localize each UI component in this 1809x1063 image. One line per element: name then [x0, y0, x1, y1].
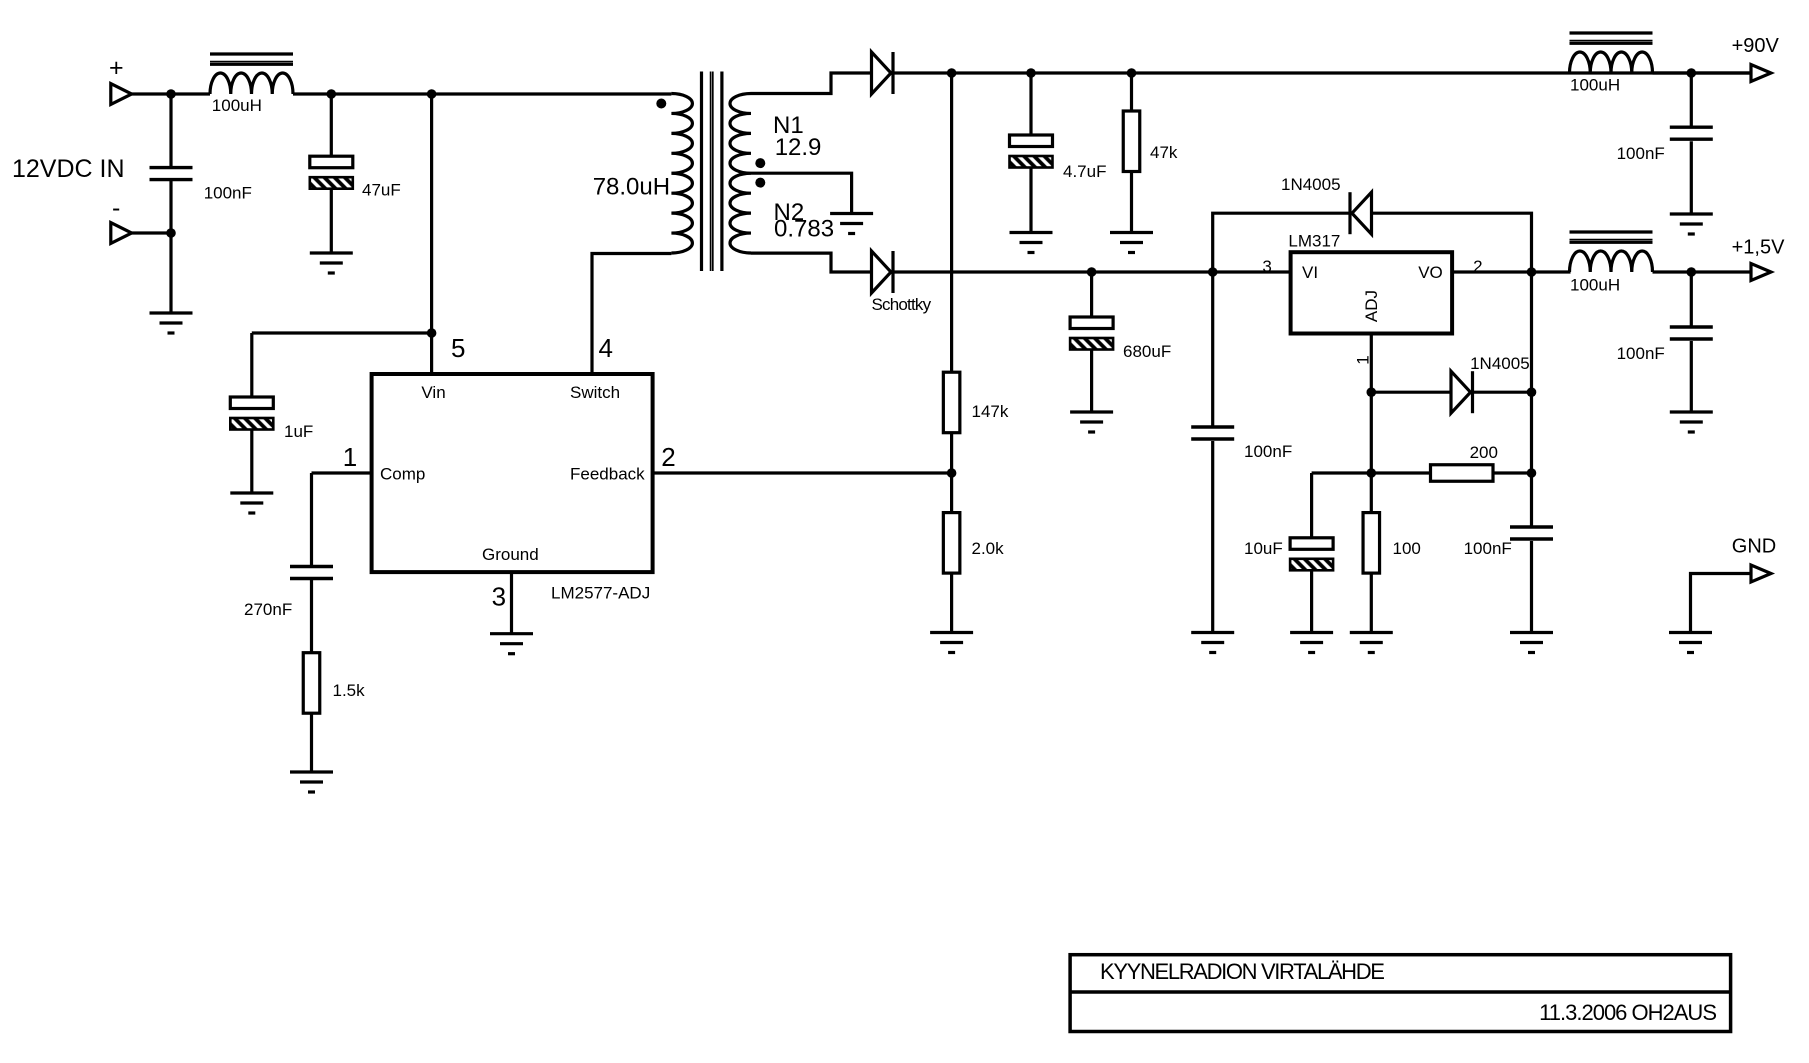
wire 100 to ground: [1370, 573, 1373, 632]
transformer T1 core lines: [702, 72, 722, 272]
capacitor 100nF input: [150, 168, 193, 180]
node R junction +1.5V: [1687, 267, 1697, 277]
wire capacitor to minus node: [169, 181, 172, 233]
wire 47uF to ground: [330, 190, 333, 254]
resistor 100: [1363, 513, 1380, 574]
wire secondary center tap: [751, 173, 852, 213]
svg-text:100nF: 100nF: [1617, 144, 1665, 163]
capacitor 270nF: [290, 567, 333, 579]
svg-text:Switch: Switch: [570, 383, 620, 402]
svg-text:1uF: 1uF: [284, 422, 313, 441]
inductor 100uH +1.5V output: [1570, 232, 1653, 272]
svg-text:78.0uH: 78.0uH: [593, 174, 670, 201]
wire ADJ pin down: [1370, 334, 1373, 513]
svg-text:KYYNELRADION VIRTALÄHDE: KYYNELRADION VIRTALÄHDE: [1100, 959, 1384, 984]
svg-text:ADJ: ADJ: [1362, 290, 1381, 322]
ground 100nF LM317: [1191, 633, 1234, 653]
wire 4.7uF to ground: [1029, 169, 1032, 233]
diode D4 1N4005 lower: [1451, 371, 1473, 413]
transformer T1 secondary winding N1 N2: [730, 94, 751, 254]
svg-text:3: 3: [492, 582, 506, 612]
resistor 200 horizontal: [1431, 465, 1494, 482]
transformer T1 phase dot primary: [656, 99, 666, 109]
wire Switch pin 4 up and right to transformer: [592, 254, 671, 375]
wire 10uF branch horizontal: [1312, 471, 1372, 474]
svg-text:270nF: 270nF: [244, 600, 292, 619]
wire inductor to Vin node: [293, 92, 671, 95]
svg-text:47uF: 47uF: [362, 181, 401, 200]
wire ADJ to diode D4: [1371, 391, 1451, 394]
inductor 100uH input: [210, 54, 293, 94]
svg-text:Feedback: Feedback: [570, 465, 645, 484]
capacitor 1uF electrolytic: [230, 397, 273, 430]
wire GND terminal to ground: [1691, 574, 1752, 633]
wire to +1,5V terminal: [1653, 270, 1752, 273]
svg-text:+: +: [109, 54, 124, 82]
ground 680uF: [1070, 412, 1113, 432]
node H junction (47k tap): [1127, 68, 1137, 78]
input terminal +: [111, 84, 132, 105]
node F junction (147k tap): [947, 68, 957, 78]
svg-text:100uH: 100uH: [212, 96, 262, 115]
diode D1 rectifier top: [872, 52, 894, 94]
wire 680uF to ground: [1090, 351, 1093, 413]
wire bypass diode loop left side: [1213, 213, 1350, 272]
svg-text:12.9: 12.9: [775, 134, 822, 161]
svg-text:-: -: [112, 194, 120, 222]
node J junction (680uF tap): [1087, 267, 1097, 277]
svg-text:LM2577-ADJ: LM2577-ADJ: [551, 584, 650, 603]
svg-text:680uF: 680uF: [1123, 342, 1171, 361]
ground pin3: [490, 634, 533, 654]
wire node K down to 100nF: [1211, 272, 1214, 427]
svg-text:147k: 147k: [972, 402, 1009, 421]
wire down to 1uF: [250, 333, 253, 397]
svg-text:11.3.2006 OH2AUS: 11.3.2006 OH2AUS: [1539, 1000, 1716, 1025]
node N junction: [1527, 387, 1537, 397]
ground 47uF: [310, 253, 353, 273]
capacitor 680uF electrolytic: [1070, 317, 1113, 350]
wire VO node down right side: [1530, 272, 1533, 527]
capacitor 100nF at LM317 input: [1191, 427, 1234, 439]
capacitor 100nF +1.5V: [1670, 327, 1713, 339]
wire 10uF down: [1310, 473, 1313, 538]
ground 100nF +1.5V: [1670, 412, 1713, 432]
ground 47k: [1110, 233, 1153, 253]
wire Feedback pin 2 right: [653, 471, 952, 474]
diode D3 1N4005 top: [1350, 192, 1372, 234]
wire node A down to capacitor 100nF: [169, 94, 172, 168]
resistor 147k: [943, 372, 960, 433]
wire Ground pin 3 down: [510, 572, 513, 634]
wire node Q down to 100nF: [1690, 73, 1693, 127]
resistor 1.5k: [303, 653, 320, 714]
wire bypass diode loop right side: [1372, 213, 1532, 272]
node D junction: [166, 228, 176, 238]
node B junction (47uF tap): [327, 89, 337, 99]
wire resistor 200 to node P: [1493, 471, 1532, 474]
wire diode D4 to node N: [1473, 391, 1532, 394]
svg-text:3: 3: [1262, 257, 1271, 276]
wire 147k to 2.0k: [950, 433, 953, 513]
wire 1uF to ground: [250, 431, 253, 494]
svg-text:100uH: 100uH: [1570, 276, 1620, 295]
capacitor 47uF electrolytic: [310, 156, 353, 189]
svg-text:100: 100: [1393, 539, 1421, 558]
node C junction (Vin tap): [427, 89, 437, 99]
svg-text:1.5k: 1.5k: [333, 681, 366, 700]
capacitor 100nF at 200: [1510, 527, 1553, 539]
svg-text:2.0k: 2.0k: [972, 539, 1005, 558]
wire node J down to 680uF: [1090, 272, 1093, 317]
ground 100nF 200: [1510, 633, 1553, 653]
svg-text:Vin: Vin: [421, 383, 445, 402]
svg-text:1N4005: 1N4005: [1281, 175, 1341, 194]
wire top rail +90V: [893, 71, 1751, 74]
wire 100nF to ground: [1211, 441, 1214, 633]
svg-text:Comp: Comp: [380, 465, 425, 484]
ground 100nF +90V: [1670, 214, 1713, 234]
svg-text:LM317: LM317: [1288, 232, 1340, 251]
svg-text:100nF: 100nF: [1244, 442, 1292, 461]
input terminal -: [111, 223, 132, 244]
wire node C down to Vin pin: [430, 94, 433, 374]
wire node H down to 47k: [1130, 73, 1133, 111]
wire 10uF to ground: [1310, 571, 1313, 632]
svg-text:+90V: +90V: [1732, 35, 1780, 57]
svg-text:1: 1: [343, 442, 357, 472]
svg-text:1N4005: 1N4005: [1470, 354, 1530, 373]
ground 100: [1350, 633, 1393, 653]
diode D2 Schottky: [872, 251, 894, 293]
svg-text:VO: VO: [1418, 263, 1443, 282]
svg-text:Ground: Ground: [482, 545, 539, 564]
svg-text:4: 4: [599, 333, 613, 363]
node O junction (ADJ resistor net): [1367, 468, 1377, 478]
svg-text:GND: GND: [1732, 536, 1776, 558]
wire node R down to 100nF: [1690, 272, 1693, 327]
ground 1uF: [230, 493, 273, 513]
title block divider: [1070, 990, 1731, 994]
wire down to 270nF: [310, 473, 313, 567]
regulator U2 LM317 box: [1291, 252, 1453, 333]
node M junction (ADJ diode): [1367, 387, 1377, 397]
ground 1.5k: [290, 772, 333, 792]
output terminal GND: [1751, 565, 1771, 582]
node L junction (VO): [1527, 267, 1537, 277]
wire 270nF to 1.5k: [310, 580, 313, 653]
wire from - terminal to node D: [132, 231, 171, 234]
wire node G down to 4.7uF: [1029, 73, 1032, 135]
ground input: [150, 313, 193, 333]
svg-text:100uH: 100uH: [1570, 76, 1620, 95]
wire secondary bottom to schottky: [751, 253, 872, 272]
transformer T1 primary winding 78.0uH: [671, 94, 692, 254]
capacitor 100nF +90V: [1670, 127, 1713, 139]
output terminal +90V: [1751, 65, 1771, 82]
transformer T1 phase dot N2: [755, 178, 765, 188]
node G junction (4.7uF tap): [1026, 68, 1036, 78]
node I junction (feedback): [947, 468, 957, 478]
svg-text:VI: VI: [1302, 263, 1318, 282]
svg-text:100nF: 100nF: [204, 184, 252, 203]
wire 147k chain from top rail: [950, 73, 953, 372]
svg-text:2: 2: [661, 442, 675, 472]
resistor 47k: [1123, 111, 1140, 172]
wire lower rail to LM317 VI: [893, 270, 1291, 273]
wire node D down to ground: [169, 233, 172, 313]
ground 10uF: [1290, 633, 1333, 653]
wire node E left to 1uF: [252, 331, 432, 334]
wire 100nF to ground: [1690, 341, 1693, 412]
transformer T1 phase dot N1: [755, 158, 765, 168]
svg-text:+1,5V: +1,5V: [1732, 237, 1785, 259]
node Q junction +90V: [1687, 68, 1697, 78]
ground 2.0k: [930, 633, 973, 653]
svg-text:1: 1: [1354, 355, 1373, 364]
svg-text:10uF: 10uF: [1244, 539, 1283, 558]
node E junction (1uF tap): [427, 328, 437, 338]
capacitor 4.7uF electrolytic: [1010, 135, 1053, 168]
wire from + terminal to node A: [132, 92, 210, 95]
svg-text:4.7uF: 4.7uF: [1063, 162, 1106, 181]
svg-text:200: 200: [1470, 443, 1498, 462]
node A junction: [166, 89, 176, 99]
op-amp U1 LM2577-ADJ box: [372, 374, 653, 572]
ground 4.7uF: [1010, 233, 1053, 253]
ground GND terminal: [1669, 633, 1712, 653]
wire 1.5k to ground: [310, 713, 313, 772]
svg-text:47k: 47k: [1150, 143, 1178, 162]
svg-text:100nF: 100nF: [1464, 539, 1512, 558]
ground center tap: [830, 214, 873, 234]
svg-text:100nF: 100nF: [1617, 344, 1665, 363]
wire Comp pin 1 left: [312, 471, 372, 474]
svg-text:0.783: 0.783: [774, 216, 834, 243]
capacitor 10uF electrolytic: [1290, 538, 1333, 571]
wire secondary top to diode: [751, 73, 872, 94]
node K junction (bypass + 100nF tap): [1208, 267, 1218, 277]
svg-text:5: 5: [451, 333, 465, 363]
wire 100nF to ground: [1690, 141, 1693, 214]
svg-text:12VDC IN: 12VDC IN: [12, 155, 125, 183]
svg-text:Schottky: Schottky: [872, 295, 932, 314]
wire 2.0k to ground: [950, 573, 953, 632]
wire to +90V terminal: [1653, 71, 1752, 74]
wire to resistor 200: [1371, 471, 1430, 474]
resistor 2.0k: [943, 513, 960, 574]
node P junction: [1527, 468, 1537, 478]
wire node B down to 47uF: [330, 94, 333, 156]
output terminal +1,5V: [1751, 264, 1771, 281]
inductor 100uH +90V output: [1570, 33, 1653, 73]
title block box: [1070, 955, 1731, 1032]
wire 47k to ground: [1130, 172, 1133, 233]
wire VO pin to inductor: [1452, 270, 1570, 273]
wire 100nF to ground: [1530, 541, 1533, 633]
